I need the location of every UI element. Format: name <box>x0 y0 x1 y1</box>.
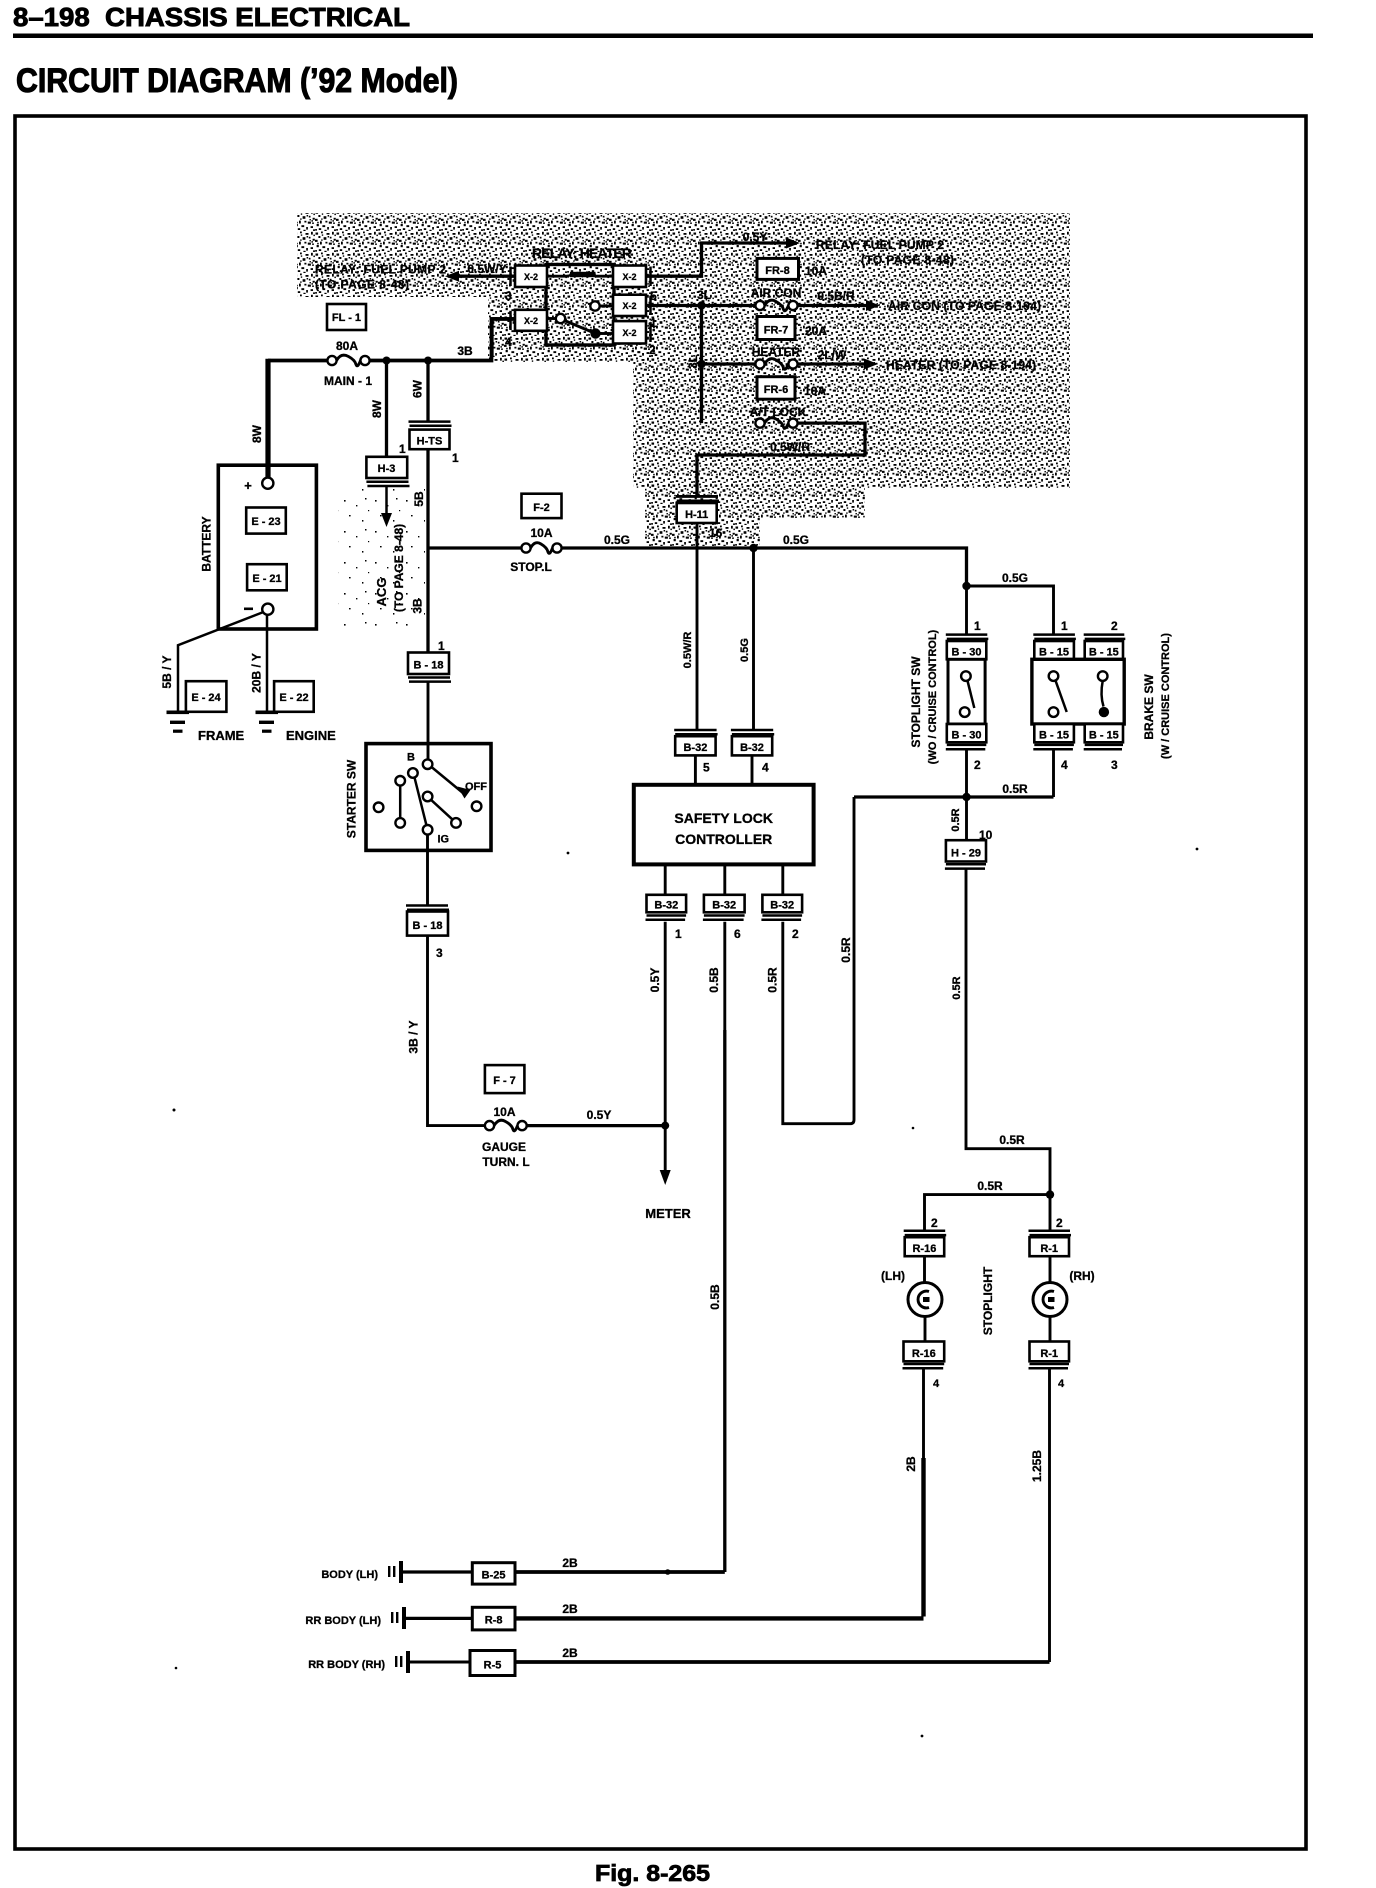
svg-text:HEATER: HEATER <box>752 345 801 359</box>
connector E-24 <box>186 681 227 712</box>
wire B-32 5 to controller <box>694 755 697 784</box>
svg-text:R-5: R-5 <box>484 1660 502 1672</box>
label ACG (TO PAGE 8-48) <box>374 524 406 612</box>
header rule <box>13 34 1313 39</box>
junction node H-3 tap <box>383 357 391 365</box>
svg-text:10A: 10A <box>530 526 552 540</box>
wire 0.5W/R from H-11 down to B-32 <box>696 523 699 729</box>
wire controller pin1 <box>664 864 667 896</box>
junction node meter tap <box>661 1122 669 1130</box>
wire 0.5G branch to brake sw <box>967 586 1054 634</box>
svg-text:8–198 CHASSIS ELECTRICAL: 8–198 CHASSIS ELECTRICAL <box>13 2 410 32</box>
brake switch body <box>1032 659 1124 724</box>
fuse FR-6 <box>757 377 826 400</box>
svg-text:MAIN - 1: MAIN - 1 <box>324 374 372 388</box>
svg-text:B - 18: B - 18 <box>413 920 443 932</box>
svg-text:2: 2 <box>1111 619 1118 633</box>
svg-text:RR BODY (RH): RR BODY (RH) <box>308 1659 385 1671</box>
svg-text:FRAME: FRAME <box>198 728 245 743</box>
svg-text:B-32: B-32 <box>770 900 794 912</box>
svg-text:RR BODY (LH): RR BODY (LH) <box>305 1615 381 1627</box>
wire 3B main bus <box>268 319 515 361</box>
ground engine <box>256 711 337 744</box>
bulb stoplight RH <box>1033 1283 1067 1317</box>
fuse symbol MAIN-1 <box>324 355 372 388</box>
svg-text:AIR CON: AIR CON <box>751 286 802 300</box>
svg-text:Fig. 8-265: Fig. 8-265 <box>595 1860 710 1886</box>
svg-text:H - 29: H - 29 <box>951 848 981 860</box>
relay heater body <box>546 265 614 346</box>
connector B-15 pin 1 <box>1033 619 1076 659</box>
wire 0.5B/R to air con <box>798 289 1042 313</box>
fuse symbol HEATER <box>755 359 797 370</box>
svg-text:2: 2 <box>792 927 799 941</box>
svg-text:6W: 6W <box>411 379 425 398</box>
connector X-2 bottom-left <box>505 310 547 349</box>
svg-text:R-1: R-1 <box>1040 1243 1058 1255</box>
svg-text:F - 7: F - 7 <box>493 1075 516 1087</box>
relay switch blade <box>565 321 614 339</box>
svg-text:3: 3 <box>505 289 512 303</box>
svg-text:8W: 8W <box>370 399 384 418</box>
svg-text:10A: 10A <box>493 1105 515 1119</box>
svg-text:3B: 3B <box>411 598 425 614</box>
svg-text:2B: 2B <box>562 1602 578 1616</box>
connector B-15 pin 2 <box>1084 619 1126 659</box>
svg-text:A/T LOCK: A/T LOCK <box>750 405 807 419</box>
wire controller pin6 <box>723 864 726 896</box>
starter switch <box>345 744 492 851</box>
svg-text:FL - 1: FL - 1 <box>332 312 361 324</box>
svg-text:R-16: R-16 <box>912 1348 936 1360</box>
svg-text:B - 15: B - 15 <box>1039 730 1069 742</box>
svg-text:4: 4 <box>1061 758 1068 772</box>
connector B-18 upper <box>408 639 451 682</box>
svg-text:+: + <box>244 478 252 493</box>
svg-text:5B / Y: 5B / Y <box>160 655 174 688</box>
svg-text:(RH): (RH) <box>1069 1269 1094 1283</box>
svg-text:3B: 3B <box>457 344 473 358</box>
svg-text:10A: 10A <box>804 384 826 398</box>
svg-text:RELAY; FUEL PUMP 2: RELAY; FUEL PUMP 2 <box>816 238 944 252</box>
svg-text:B - 15: B - 15 <box>1089 730 1119 742</box>
connector E-22 <box>274 681 314 712</box>
wire RH bulb to R-1 <box>1049 1317 1052 1342</box>
svg-text:2B: 2B <box>904 1456 918 1472</box>
svg-text:0.5B: 0.5B <box>707 967 721 993</box>
svg-text:2B: 2B <box>562 1646 578 1660</box>
svg-text:STOP.L: STOP.L <box>510 560 552 574</box>
svg-text:(LH): (LH) <box>881 1269 905 1283</box>
svg-text:2: 2 <box>649 343 656 357</box>
connector X-2 bottom-right <box>613 321 656 357</box>
svg-text:1: 1 <box>438 639 445 653</box>
svg-text:E - 21: E - 21 <box>252 573 281 585</box>
relay contact NO <box>547 314 565 323</box>
safety lock controller <box>634 785 814 865</box>
svg-text:B-32: B-32 <box>740 742 764 754</box>
fuse symbol A/T LOCK <box>755 418 797 429</box>
svg-text:X-2: X-2 <box>524 316 538 326</box>
svg-text:(W / CRUISE CONTROL): (W / CRUISE CONTROL) <box>1160 633 1172 759</box>
svg-text:0.5R: 0.5R <box>766 967 780 993</box>
svg-text:1: 1 <box>399 442 406 456</box>
wire 8W battery feed <box>265 359 270 478</box>
label STOPLIGHT SW (WO / CRUISE CONTROL) <box>909 629 939 764</box>
svg-text:RELAY; HEATER: RELAY; HEATER <box>532 245 632 261</box>
svg-text:BODY (LH): BODY (LH) <box>321 1569 378 1581</box>
svg-text:R-16: R-16 <box>912 1243 936 1255</box>
wire 1.25B RH lamp down <box>1048 1368 1051 1662</box>
svg-text:1: 1 <box>452 451 459 465</box>
connector H-29 <box>945 828 993 869</box>
svg-text:TURN. L: TURN. L <box>482 1155 529 1169</box>
svg-text:3: 3 <box>1111 758 1118 772</box>
svg-text:B - 18: B - 18 <box>414 660 444 672</box>
wire B-30 2 to 0.5R <box>965 749 968 797</box>
svg-text:STARTER SW: STARTER SW <box>345 759 359 838</box>
connector B-30 pin 1 <box>946 619 989 659</box>
svg-text:3B / Y: 3B / Y <box>407 1020 421 1053</box>
wire heater row <box>702 362 756 365</box>
connector H-3 <box>366 442 409 486</box>
svg-text:0.5G: 0.5G <box>783 533 809 547</box>
fuse symbol GAUGE TURN.L <box>482 1120 530 1169</box>
junction node heater tap <box>697 360 705 368</box>
svg-text:0.5G: 0.5G <box>604 533 630 547</box>
wire 5B/Y battery to frame ground <box>178 612 264 712</box>
svg-text:STOPLIGHT: STOPLIGHT <box>981 1266 995 1335</box>
svg-text:0.5R: 0.5R <box>1002 782 1028 796</box>
svg-text:20B / Y: 20B / Y <box>250 653 264 693</box>
svg-text:CIRCUIT DIAGRAM (’92 Model): CIRCUIT DIAGRAM (’92 Model) <box>16 62 458 100</box>
wire 2B from R-5 to RH lamp <box>515 1660 1050 1664</box>
wire 8W to H-3 <box>385 361 388 457</box>
svg-text:0.5Y: 0.5Y <box>587 1108 612 1122</box>
svg-text:F-2: F-2 <box>533 502 550 514</box>
svg-text:IG: IG <box>438 834 450 846</box>
svg-text:E - 24: E - 24 <box>191 692 221 704</box>
body ground symbol LH <box>388 1561 403 1583</box>
svg-text:X-2: X-2 <box>524 272 538 282</box>
svg-text:H-3: H-3 <box>378 463 396 475</box>
svg-text:0.5W/R: 0.5W/R <box>682 632 694 669</box>
junction node H-TS tap <box>424 357 432 365</box>
svg-text:B-32: B-32 <box>712 900 736 912</box>
svg-text:2L/W: 2L/W <box>818 348 847 362</box>
svg-text:3L: 3L <box>697 288 711 302</box>
svg-text:ENGINE: ENGINE <box>286 728 336 743</box>
svg-text:10A: 10A <box>805 264 827 278</box>
fuse F-2 <box>522 494 562 540</box>
svg-text:3: 3 <box>436 946 443 960</box>
ground frame <box>167 711 245 744</box>
connector B-32 pin 4 <box>731 730 774 775</box>
svg-text:B - 15: B - 15 <box>1039 647 1069 659</box>
label RELAY: FUEL PUMP 2 (TO PAGE 8-48) left <box>315 263 446 292</box>
svg-text:FR-7: FR-7 <box>764 325 788 337</box>
svg-text:(WO / CRUISE CONTROL): (WO / CRUISE CONTROL) <box>927 629 939 764</box>
junction node 0.5G branch <box>962 582 970 590</box>
svg-text:BATTERY: BATTERY <box>200 516 214 571</box>
svg-text:(TO PAGE 8-48): (TO PAGE 8-48) <box>392 524 406 612</box>
wire to R-8 <box>406 1617 472 1620</box>
connector B-32 pin 2 <box>761 895 802 941</box>
svg-text:0.5R: 0.5R <box>950 808 962 831</box>
connector B-32 pin 6 <box>703 895 745 941</box>
body ground symbol RR LH <box>391 1607 406 1629</box>
wire B-32 4 to controller <box>751 755 754 784</box>
svg-text:0.5W/R: 0.5W/R <box>770 440 810 454</box>
connector R-8 <box>472 1607 515 1630</box>
svg-text:FR-8: FR-8 <box>765 265 789 277</box>
wire 0.5R from B-32 2 U-loop <box>783 797 854 1124</box>
wire 0.5B from B-32 6 <box>723 922 726 1030</box>
stoplight switch body <box>948 659 985 724</box>
fuse F-7 <box>485 1065 525 1119</box>
svg-text:H-TS: H-TS <box>417 436 443 448</box>
wire 6W to H-TS <box>426 361 429 422</box>
svg-text:B-32: B-32 <box>683 742 707 754</box>
fuse FR-8 <box>757 258 827 279</box>
svg-text:X-2: X-2 <box>622 328 636 338</box>
svg-text:SAFETY LOCK: SAFETY LOCK <box>674 810 773 826</box>
wire 0.5G down to B-32 <box>752 548 755 729</box>
svg-text:0.5Y: 0.5Y <box>743 230 768 244</box>
wire controller pin2 <box>781 864 784 896</box>
svg-text:E - 22: E - 22 <box>279 692 308 704</box>
wire 0.5R horizontal <box>854 795 1054 798</box>
connector B-18 lower <box>406 906 449 961</box>
wire 2B LH lamp down <box>922 1368 925 1460</box>
svg-text:B - 15: B - 15 <box>1089 647 1119 659</box>
connector E-21 <box>247 564 287 590</box>
svg-text:0.5R: 0.5R <box>839 937 853 963</box>
wire 5B <box>426 449 429 655</box>
wire 2B from B-25 <box>515 1570 725 1574</box>
label RELAY; FUEL PUMP 2 (TO PAGE 8-48) right <box>816 238 954 267</box>
wire ACG with arrow <box>381 486 392 527</box>
svg-text:OFF: OFF <box>465 781 487 793</box>
connector R-1 pin 4 <box>1029 1342 1070 1391</box>
body ground symbol RR RH <box>395 1651 410 1673</box>
svg-text:0.5G: 0.5G <box>739 638 751 662</box>
wire to RH bulb <box>1049 1256 1052 1283</box>
svg-text:1: 1 <box>675 927 682 941</box>
connector B-15 pin 3 <box>1084 724 1123 772</box>
connector X-2 mid-right <box>613 295 657 330</box>
connector B-32 pin 5 <box>674 730 717 775</box>
svg-text:4: 4 <box>762 761 769 775</box>
svg-text:(TO PAGE 8-48): (TO PAGE 8-48) <box>861 253 954 267</box>
svg-text:2: 2 <box>974 758 981 772</box>
svg-text:HEATER (TO PAGE 8-194): HEATER (TO PAGE 8-194) <box>886 358 1036 372</box>
wire 2L/W to heater <box>798 348 1037 372</box>
connector R-5 <box>470 1651 515 1676</box>
svg-text:X-2: X-2 <box>622 301 636 311</box>
svg-text:RELAY: FUEL PUMP 2: RELAY: FUEL PUMP 2 <box>315 263 446 277</box>
wire relay to air con fuse <box>646 304 756 307</box>
wire to R-5 <box>410 1661 470 1664</box>
svg-text:1: 1 <box>974 619 981 633</box>
wire to B-25 <box>403 1570 472 1573</box>
wire 0.5R to H-29 <box>965 797 968 840</box>
junction node 0.5G tap <box>749 544 757 552</box>
wire 20B/Y battery to engine ground <box>266 615 269 712</box>
svg-text:E - 23: E - 23 <box>251 516 280 528</box>
halftone shaded region <box>297 213 1070 628</box>
wire to starter switch <box>427 682 430 762</box>
svg-text:1: 1 <box>1061 619 1068 633</box>
fuse symbol STOP.L <box>510 543 561 574</box>
junction node 0.5R <box>962 793 970 801</box>
svg-text:0.5R: 0.5R <box>951 976 963 999</box>
fusible link FL-1 <box>327 304 366 353</box>
svg-text:2: 2 <box>1056 1216 1063 1230</box>
wire 0.5Y gauge to meter <box>527 1124 666 1127</box>
svg-text:0.5G: 0.5G <box>1002 571 1028 585</box>
relay coil <box>547 272 613 277</box>
svg-text:80A: 80A <box>336 339 358 353</box>
svg-text:GAUGE: GAUGE <box>482 1140 526 1154</box>
junction node stoplight feed <box>1046 1190 1054 1198</box>
svg-text:BRAKE SW: BRAKE SW <box>1142 674 1156 740</box>
connector R-16 pin 4 <box>903 1342 945 1391</box>
wire starter to B-18 lower <box>426 835 429 906</box>
svg-text:FR-6: FR-6 <box>764 384 788 396</box>
svg-text:0.5R: 0.5R <box>999 1133 1025 1147</box>
svg-text:0.5B/R: 0.5B/R <box>817 289 855 303</box>
svg-text:1.25B: 1.25B <box>1030 1450 1044 1482</box>
svg-text:20A: 20A <box>805 324 827 338</box>
connector R-1 pin 2 <box>1029 1216 1072 1256</box>
wire 3B/Y down to gauge fuse <box>428 936 486 1126</box>
svg-text:0.5W/Y: 0.5W/Y <box>467 262 506 276</box>
wire 3L vertical <box>700 306 703 424</box>
svg-text:B-25: B-25 <box>482 1570 506 1582</box>
wire to LH bulb <box>923 1256 926 1283</box>
svg-text:2: 2 <box>931 1216 938 1230</box>
svg-text:AIR CON (TO PAGE 8-194): AIR CON (TO PAGE 8-194) <box>888 299 1041 313</box>
wire 0.5G main <box>428 548 967 586</box>
svg-text:6: 6 <box>734 927 741 941</box>
svg-text:4: 4 <box>1058 1378 1065 1390</box>
svg-text:B - 30: B - 30 <box>952 730 982 742</box>
svg-text:0.5B: 0.5B <box>708 1284 722 1310</box>
svg-text:METER: METER <box>645 1206 691 1221</box>
svg-text:0.5Y: 0.5Y <box>648 968 662 993</box>
relay contact common <box>590 301 613 310</box>
svg-text:B - 30: B - 30 <box>952 647 982 659</box>
svg-text:8W: 8W <box>250 424 264 443</box>
wire LH bulb to R-16 <box>924 1317 927 1342</box>
svg-text:4: 4 <box>505 335 512 349</box>
scan specks <box>173 848 1199 1738</box>
connector B-30 pin 2 <box>946 724 987 772</box>
wire 0.5W/R loop to H-11 <box>697 423 865 496</box>
fuse symbol AIR CON <box>755 300 797 311</box>
wire 0.5G to stoplight sw <box>965 586 968 634</box>
svg-text:2B: 2B <box>562 1556 578 1570</box>
svg-text:0.5R: 0.5R <box>977 1179 1003 1193</box>
connector R-16 pin 2 <box>904 1216 947 1256</box>
junction speck <box>665 1569 671 1575</box>
wire 0.5W/Y to relay fuel pump 2 (left) <box>445 271 515 282</box>
svg-text:5: 5 <box>703 761 710 775</box>
wire 4 to main bus <box>492 319 515 357</box>
connector X-2 top-left <box>505 266 547 304</box>
svg-text:R-8: R-8 <box>485 1615 503 1627</box>
wire to METER arrow <box>645 1126 691 1221</box>
label BRAKE SW (W / CRUISE CONTROL) <box>1142 633 1172 759</box>
svg-text:ACG: ACG <box>374 578 389 607</box>
battery <box>200 465 317 629</box>
wire B-15 4 to 0.5R <box>1052 749 1055 797</box>
svg-text:H-11: H-11 <box>685 509 708 521</box>
connector H-TS <box>409 422 460 465</box>
svg-text:R-1: R-1 <box>1040 1348 1058 1360</box>
svg-text:16: 16 <box>709 526 723 540</box>
wire 0.5Y from B-32 1 <box>664 922 667 1126</box>
connector E-23 <box>246 508 286 534</box>
wire 0.5Y to relay fuel pump 2 (right) <box>646 238 800 277</box>
connector H-11 <box>676 496 723 540</box>
svg-text:STOPLIGHT SW: STOPLIGHT SW <box>909 656 923 748</box>
connector X-2 top-right <box>613 266 657 304</box>
fuse FR-7 <box>757 317 827 340</box>
wire 2B from R-8 to LH lamp <box>515 1616 924 1620</box>
wire 0.5R from H-29 down with jog <box>966 869 1050 1231</box>
connector B-32 pin 1 <box>646 895 687 941</box>
svg-text:5B: 5B <box>412 491 426 507</box>
svg-text:B: B <box>407 752 415 764</box>
svg-text:4: 4 <box>933 1378 940 1390</box>
svg-text:CONTROLLER: CONTROLLER <box>675 831 772 847</box>
connector B-15 pin 4 <box>1033 724 1074 772</box>
svg-text:(TO PAGE 8-48): (TO PAGE 8-48) <box>315 278 409 292</box>
wire 0.5R to LH lamp <box>925 1195 1051 1231</box>
connector B-25 <box>472 1563 515 1584</box>
svg-text:B-32: B-32 <box>654 900 678 912</box>
svg-text:X-2: X-2 <box>622 272 636 282</box>
junction node 3L <box>697 301 705 309</box>
bulb stoplight LH <box>908 1283 942 1317</box>
